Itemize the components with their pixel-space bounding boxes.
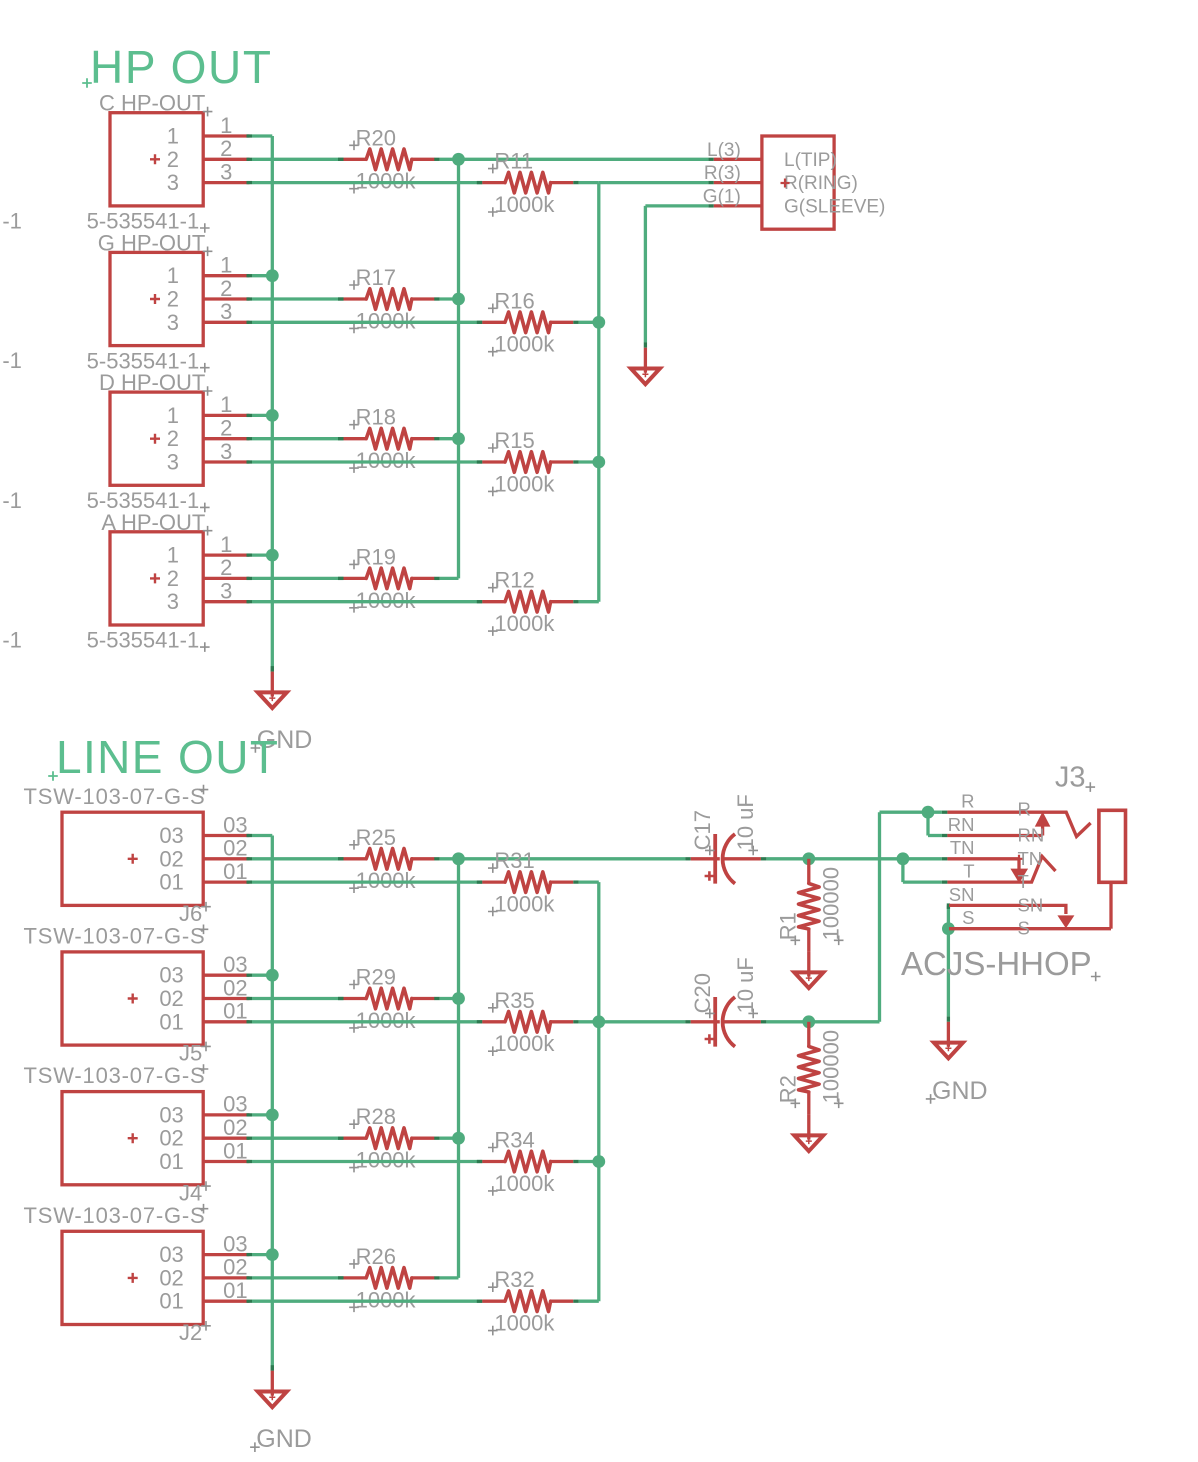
pin 2 of D HP-OUT xyxy=(203,437,249,440)
svg-text:3: 3 xyxy=(220,159,232,184)
wire pin01 to R35 xyxy=(247,1020,253,1023)
svg-text:J3: J3 xyxy=(1055,762,1086,794)
svg-text:10 uF: 10 uF xyxy=(733,794,758,850)
svg-text:1000k: 1000k xyxy=(494,192,555,217)
svg-text:R(3): R(3) xyxy=(704,163,741,184)
wire C HP-OUT pin1 to GND bus xyxy=(247,134,253,137)
svg-text:2: 2 xyxy=(220,276,232,301)
resistor R12 xyxy=(482,568,573,636)
svg-text:03: 03 xyxy=(159,1242,183,1267)
resistor R32 xyxy=(482,1267,573,1335)
wire R17 output xyxy=(434,297,440,300)
wire J4 pin03 to GND bus xyxy=(247,1113,253,1116)
junction xyxy=(802,1015,815,1028)
wire R18 output xyxy=(434,437,440,440)
svg-text:03: 03 xyxy=(223,1092,247,1117)
wire R19 output xyxy=(434,577,440,580)
svg-text:3: 3 xyxy=(167,450,179,475)
svg-text:100000: 100000 xyxy=(819,1030,844,1103)
svg-text:3: 3 xyxy=(220,579,232,604)
ground xyxy=(631,348,660,385)
resistor R16 xyxy=(482,288,573,356)
resistor R20 xyxy=(344,125,435,193)
svg-text:T: T xyxy=(963,861,974,882)
svg-text:1000k: 1000k xyxy=(494,1031,555,1056)
connector J5 (TSW-103-07-G-S) xyxy=(24,924,250,1066)
resistor R17 xyxy=(344,265,435,333)
wire pin3 to R15 xyxy=(247,460,253,463)
svg-text:3: 3 xyxy=(220,439,232,464)
junction xyxy=(592,316,605,329)
svg-text:C20: C20 xyxy=(690,973,715,1013)
svg-text:S: S xyxy=(962,907,974,928)
junction xyxy=(452,852,465,865)
junction xyxy=(922,806,935,819)
svg-text:1000k: 1000k xyxy=(494,1311,555,1336)
pin 01 of J5 xyxy=(203,1020,249,1023)
svg-text:5-535541-1: 5-535541-1 xyxy=(87,628,200,653)
svg-text:01: 01 xyxy=(223,999,247,1024)
pin 03 of J2 xyxy=(203,1253,249,1256)
svg-text:S: S xyxy=(1018,918,1030,939)
wire TN to T tie xyxy=(901,859,904,882)
svg-text:01: 01 xyxy=(223,1138,247,1163)
svg-text:03: 03 xyxy=(223,812,247,837)
wire GND bus (HP section) xyxy=(271,136,274,672)
resistor R2 xyxy=(775,1030,843,1108)
wire R29 output xyxy=(434,997,440,1000)
svg-text:3: 3 xyxy=(220,299,232,324)
wire J5 pin03 to GND bus xyxy=(247,974,253,977)
LINE OUT section heading xyxy=(48,731,279,783)
wire A HP-OUT pin1 to GND bus xyxy=(247,553,253,556)
wire SN to S tie xyxy=(947,905,950,928)
junction xyxy=(802,852,815,865)
junction xyxy=(266,1248,279,1261)
svg-text:ACJS-HHOP: ACJS-HHOP xyxy=(901,945,1092,982)
svg-text:J6: J6 xyxy=(179,901,202,926)
svg-text:01: 01 xyxy=(159,1149,183,1174)
svg-text:02: 02 xyxy=(223,1255,247,1280)
svg-text:GND: GND xyxy=(932,1077,988,1105)
wire J6 pin03 to GND bus xyxy=(247,834,253,837)
wire T bus (01-resistor outputs) xyxy=(597,882,600,1301)
wire pin01 to R34 xyxy=(247,1160,253,1163)
wire pin3 to R16 xyxy=(247,321,253,324)
svg-text:C HP-OUT: C HP-OUT xyxy=(99,91,205,116)
wire node to C17 xyxy=(459,857,686,860)
svg-text:TSW-103-07-G-S: TSW-103-07-G-S xyxy=(24,924,206,949)
junction xyxy=(266,969,279,982)
svg-text:R25: R25 xyxy=(356,825,396,850)
svg-text:03: 03 xyxy=(159,963,183,988)
svg-text:1000k: 1000k xyxy=(494,1171,555,1196)
svg-text:G(1): G(1) xyxy=(703,187,741,208)
svg-text:1: 1 xyxy=(167,543,179,568)
wire pin3 to R11 xyxy=(247,181,253,184)
pin 01 of J4 xyxy=(203,1160,249,1163)
svg-text:01: 01 xyxy=(159,1009,183,1034)
junction xyxy=(942,922,955,935)
connector C HP-OUT (5-535541-1) xyxy=(87,91,250,234)
svg-text:R18: R18 xyxy=(356,405,396,430)
resistor R15 xyxy=(482,428,573,496)
pin 02 of J5 xyxy=(203,997,249,1000)
J3 reference label xyxy=(1055,762,1095,794)
svg-text:SN: SN xyxy=(949,884,975,905)
wire R12 output xyxy=(573,600,579,603)
svg-text:R29: R29 xyxy=(356,965,396,990)
capacitor C17 xyxy=(690,794,761,883)
svg-text:R16: R16 xyxy=(494,288,534,313)
wire pin2 to R17 xyxy=(247,297,253,300)
svg-text:C17: C17 xyxy=(690,810,715,850)
svg-text:01: 01 xyxy=(159,870,183,895)
svg-text:02: 02 xyxy=(223,975,247,1000)
resistor R1 xyxy=(775,867,843,945)
wire node R to jack xyxy=(599,181,709,184)
wire pin01 to R31 xyxy=(247,880,253,883)
wire L bus (R20 outputs) xyxy=(457,159,460,578)
wire TN bus (02-resistor outputs) xyxy=(457,859,460,1278)
wire S to ground xyxy=(947,929,950,1017)
svg-text:A HP-OUT: A HP-OUT xyxy=(101,510,205,535)
svg-text:-1: -1 xyxy=(2,488,22,513)
svg-text:-1: -1 xyxy=(2,208,22,233)
junction xyxy=(592,1155,605,1168)
svg-text:1: 1 xyxy=(167,124,179,149)
svg-text:J4: J4 xyxy=(179,1180,202,1205)
ground xyxy=(794,1115,823,1152)
svg-text:1000k: 1000k xyxy=(494,471,555,496)
wire C20 output to jack R xyxy=(761,1020,767,1023)
ground xyxy=(258,1371,287,1408)
HP OUT section heading xyxy=(82,41,272,93)
wire G HP-OUT pin1 to GND bus xyxy=(247,274,253,277)
svg-text:02: 02 xyxy=(159,986,183,1011)
wire R2 to ground xyxy=(807,1092,810,1115)
svg-text:02: 02 xyxy=(159,846,183,871)
svg-text:2: 2 xyxy=(220,416,232,441)
resistor R25 xyxy=(344,825,435,893)
resistor R35 xyxy=(482,988,573,1056)
connector A HP-OUT (5-535541-1) xyxy=(87,510,250,653)
svg-text:1: 1 xyxy=(167,263,179,288)
resistor R31 xyxy=(482,848,573,916)
svg-text:02: 02 xyxy=(159,1265,183,1290)
svg-text:SN: SN xyxy=(1018,894,1044,915)
svg-text:10 uF: 10 uF xyxy=(733,957,758,1013)
ground xyxy=(258,672,287,709)
svg-text:GND: GND xyxy=(256,1425,312,1453)
svg-text:TN: TN xyxy=(1018,848,1043,869)
svg-text:RN: RN xyxy=(1018,825,1045,846)
wire R31 output xyxy=(573,880,579,883)
svg-text:T: T xyxy=(1018,871,1029,892)
svg-text:3: 3 xyxy=(167,170,179,195)
pin 2 of A HP-OUT xyxy=(203,577,249,580)
svg-text:L(3): L(3) xyxy=(707,140,741,161)
connector J4 (TSW-103-07-G-S) xyxy=(24,1063,250,1205)
svg-text:100000: 100000 xyxy=(819,867,844,940)
ground xyxy=(934,1022,963,1059)
junction xyxy=(897,852,910,865)
resistor R29 xyxy=(344,965,435,1033)
svg-text:3: 3 xyxy=(167,310,179,335)
junction xyxy=(452,153,465,166)
pin 2 of G HP-OUT xyxy=(203,297,249,300)
pin 1 of D HP-OUT xyxy=(203,414,249,417)
svg-text:L(TIP): L(TIP) xyxy=(784,150,837,171)
svg-text:1: 1 xyxy=(167,403,179,428)
jack connector J3 ACJS-HHOP xyxy=(947,810,1125,928)
svg-text:R28: R28 xyxy=(356,1104,396,1129)
pin 1 of G HP-OUT xyxy=(203,274,249,277)
svg-text:R2: R2 xyxy=(775,1075,800,1103)
pin 1 of A HP-OUT xyxy=(203,553,249,556)
svg-text:01: 01 xyxy=(159,1289,183,1314)
resistor R28 xyxy=(344,1104,435,1172)
wire GND bus (LINE OUT section) xyxy=(271,836,274,1371)
svg-text:R(RING): R(RING) xyxy=(784,173,858,194)
svg-text:RN: RN xyxy=(948,814,975,835)
pin 01 of J2 xyxy=(203,1300,249,1303)
junction xyxy=(452,992,465,1005)
wire pin01 to R32 xyxy=(247,1300,253,1303)
junction xyxy=(266,549,279,562)
pin 3 of D HP-OUT xyxy=(203,460,249,463)
GND label xyxy=(251,726,313,754)
svg-text:1000k: 1000k xyxy=(494,611,555,636)
svg-text:2: 2 xyxy=(167,287,179,312)
svg-text:J5: J5 xyxy=(179,1041,202,1066)
resistor R34 xyxy=(482,1128,573,1196)
svg-text:1000k: 1000k xyxy=(494,892,555,917)
junction xyxy=(592,456,605,469)
resistor R26 xyxy=(344,1244,435,1312)
svg-text:R20: R20 xyxy=(356,125,396,150)
GND label xyxy=(250,1425,312,1453)
pin 2 of C HP-OUT xyxy=(203,158,249,161)
junction xyxy=(452,432,465,445)
wire pin02 to R28 xyxy=(247,1137,253,1140)
wire jack G to ground xyxy=(708,204,714,207)
wire R28 output xyxy=(434,1137,440,1140)
svg-text:R34: R34 xyxy=(494,1128,534,1153)
pin 02 of J6 xyxy=(203,857,249,860)
pin 3 of G HP-OUT xyxy=(203,321,249,324)
svg-text:LINE OUT: LINE OUT xyxy=(56,731,279,783)
svg-text:02: 02 xyxy=(223,1115,247,1140)
svg-text:1: 1 xyxy=(220,392,232,417)
svg-text:01: 01 xyxy=(223,859,247,884)
connector G HP-OUT (5-535541-1) xyxy=(87,230,250,373)
svg-text:J2: J2 xyxy=(179,1320,202,1345)
svg-text:R15: R15 xyxy=(494,428,534,453)
svg-text:R35: R35 xyxy=(494,988,534,1013)
connector D HP-OUT (5-535541-1) xyxy=(87,370,250,513)
pin 03 of J4 xyxy=(203,1113,249,1116)
svg-text:TSW-103-07-G-S: TSW-103-07-G-S xyxy=(24,1203,206,1228)
svg-text:02: 02 xyxy=(159,1126,183,1151)
capacitor C20 xyxy=(690,957,761,1046)
wire pin2 to R18 xyxy=(247,437,253,440)
J3 value label ACJS-HHOP xyxy=(901,945,1101,982)
wire node L to jack xyxy=(459,158,709,161)
svg-text:03: 03 xyxy=(223,1231,247,1256)
svg-text:-1: -1 xyxy=(2,348,22,373)
wire R16 output xyxy=(573,321,579,324)
svg-text:R11: R11 xyxy=(494,149,533,174)
svg-text:03: 03 xyxy=(223,952,247,977)
connector J2 (TSW-103-07-G-S) xyxy=(24,1203,250,1345)
wire C17 node to R1 xyxy=(807,859,810,884)
resistor R18 xyxy=(344,405,435,473)
svg-text:03: 03 xyxy=(159,1102,183,1127)
wire C17 output to jack TN xyxy=(761,857,767,860)
svg-text:R32: R32 xyxy=(494,1267,534,1292)
svg-text:G(SLEEVE): G(SLEEVE) xyxy=(784,196,885,217)
svg-text:1: 1 xyxy=(220,532,232,557)
wire D HP-OUT pin1 to GND bus xyxy=(247,414,253,417)
junction xyxy=(452,1132,465,1145)
wire pin02 to R29 xyxy=(247,997,253,1000)
svg-text:TSW-103-07-G-S: TSW-103-07-G-S xyxy=(24,1063,206,1088)
wire J2 pin03 to GND bus xyxy=(247,1253,253,1256)
svg-text:02: 02 xyxy=(223,836,247,861)
junction xyxy=(592,1015,605,1028)
svg-text:-1: -1 xyxy=(2,628,22,653)
svg-text:1000k: 1000k xyxy=(494,332,555,357)
svg-text:2: 2 xyxy=(220,136,232,161)
pin 01 of J6 xyxy=(203,880,249,883)
wire RN tie xyxy=(926,812,929,835)
HP jack connector (L/R/G) xyxy=(714,136,886,229)
svg-text:R17: R17 xyxy=(356,265,396,290)
wire R35 output xyxy=(573,1020,579,1023)
GND label xyxy=(926,1077,988,1105)
connector J6 (TSW-103-07-G-S) xyxy=(24,784,250,926)
svg-text:3: 3 xyxy=(167,589,179,614)
svg-text:R: R xyxy=(1018,799,1031,820)
wire up to R row xyxy=(878,812,881,1022)
svg-text:R1: R1 xyxy=(775,912,800,940)
wire R20 output xyxy=(434,158,440,161)
svg-text:2: 2 xyxy=(220,555,232,580)
pin 02 of J4 xyxy=(203,1137,249,1140)
svg-text:2: 2 xyxy=(167,566,179,591)
wire R26 output xyxy=(434,1276,440,1279)
junction xyxy=(266,269,279,282)
wire pin02 to R25 xyxy=(247,857,253,860)
junction xyxy=(266,409,279,422)
junction xyxy=(266,1109,279,1122)
wire node to C20 xyxy=(599,1020,685,1023)
wire pin2 to R19 xyxy=(247,577,253,580)
svg-text:TN: TN xyxy=(950,837,975,858)
wire pin3 to R12 xyxy=(247,600,253,603)
svg-text:03: 03 xyxy=(159,823,183,848)
wire R bus (R11 outputs) xyxy=(597,183,600,602)
wire C20 node to R2 xyxy=(807,1022,810,1047)
svg-text:TSW-103-07-G-S: TSW-103-07-G-S xyxy=(24,784,206,809)
pin 03 of J5 xyxy=(203,974,249,977)
junction xyxy=(452,293,465,306)
svg-text:1: 1 xyxy=(220,253,232,278)
wire R34 output xyxy=(573,1160,579,1163)
svg-text:HP OUT: HP OUT xyxy=(90,41,273,93)
svg-text:R: R xyxy=(961,791,974,812)
svg-text:R19: R19 xyxy=(356,544,396,569)
svg-text:01: 01 xyxy=(223,1278,247,1303)
pin 3 of C HP-OUT xyxy=(203,181,249,184)
wire R15 output xyxy=(573,460,579,463)
svg-text:2: 2 xyxy=(167,147,179,172)
svg-text:1: 1 xyxy=(220,113,232,138)
wire pin2 to R20 xyxy=(247,158,253,161)
pin 02 of J2 xyxy=(203,1276,249,1279)
svg-text:R26: R26 xyxy=(356,1244,396,1269)
wire R11 output xyxy=(573,181,579,184)
ground xyxy=(794,952,823,989)
pin 3 of A HP-OUT xyxy=(203,600,249,603)
wire R1 to ground xyxy=(807,929,810,952)
resistor R19 xyxy=(344,544,435,612)
svg-text:G HP-OUT: G HP-OUT xyxy=(98,230,206,255)
svg-text:R12: R12 xyxy=(494,568,534,593)
wire R32 output xyxy=(573,1300,579,1303)
svg-text:D HP-OUT: D HP-OUT xyxy=(99,370,205,395)
wire to R/RN node xyxy=(880,811,942,814)
svg-text:2: 2 xyxy=(167,426,179,451)
svg-text:R31: R31 xyxy=(494,848,534,873)
wire pin02 to R26 xyxy=(247,1276,253,1279)
pin 1 of C HP-OUT xyxy=(203,134,249,137)
pin 03 of J6 xyxy=(203,834,249,837)
wire R25 output xyxy=(434,857,440,860)
resistor R11 xyxy=(482,149,573,217)
